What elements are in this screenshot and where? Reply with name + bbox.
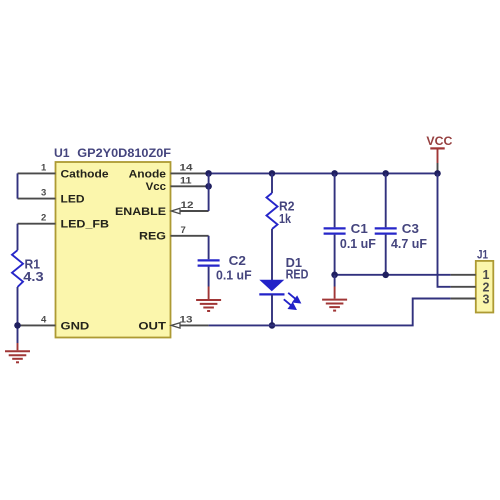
svg-text:1k: 1k bbox=[279, 212, 291, 226]
pin 13 OUT stub with output arrowhead bbox=[171, 323, 208, 328]
wire rail to C3 bbox=[385, 173, 387, 227]
pin 11 Vcc stub bbox=[171, 185, 209, 187]
net wire OUT to J1 pin3 bbox=[209, 299, 451, 326]
wire C1 bottom to GND rail bbox=[334, 235, 336, 275]
svg-text:GND: GND bbox=[61, 320, 90, 332]
svg-text:Cathode: Cathode bbox=[61, 168, 109, 180]
svg-text:0.1 uF: 0.1 uF bbox=[216, 269, 252, 283]
svg-text:2: 2 bbox=[41, 213, 46, 224]
wire R2 to D1 bbox=[271, 229, 273, 280]
svg-text:J1: J1 bbox=[477, 248, 488, 262]
svg-text:4: 4 bbox=[41, 314, 47, 325]
svg-text:12: 12 bbox=[181, 200, 194, 211]
junction C1 top bbox=[331, 170, 338, 177]
svg-text:3: 3 bbox=[41, 188, 46, 199]
svg-text:OUT: OUT bbox=[138, 320, 166, 332]
pin 4 GND stub bbox=[18, 324, 56, 326]
J1 pin 1 stub bbox=[451, 274, 476, 276]
resistor R2 zigzag bbox=[267, 193, 278, 229]
wire D1 to OUT line bbox=[271, 294, 273, 325]
svg-text:VCC: VCC bbox=[426, 134, 452, 148]
pin 2 LED_FB stub bbox=[18, 223, 56, 225]
svg-text:ENABLE: ENABLE bbox=[115, 206, 166, 218]
resistor R1 zigzag bbox=[12, 250, 23, 287]
svg-text:4.7 uF: 4.7 uF bbox=[391, 237, 427, 251]
junction R2 top bbox=[269, 170, 276, 177]
wire VCC down to J1 pin2 bbox=[438, 173, 451, 286]
svg-text:4.3: 4.3 bbox=[23, 270, 43, 284]
J1 pin 3 stub bbox=[451, 298, 476, 300]
junction C3 top bbox=[382, 170, 389, 177]
junction at R1/GND pin4 bbox=[14, 322, 21, 329]
pin 3 LED stub bbox=[18, 198, 56, 200]
junction C3 bottom bbox=[382, 272, 389, 279]
wire pin1 to pin3 U-loop bbox=[17, 173, 19, 198]
ground symbol below R1 bbox=[5, 343, 30, 362]
svg-text:LED: LED bbox=[61, 194, 85, 206]
wire vertical pin14/11 to ENABLE bbox=[208, 173, 210, 211]
capacitor C1 plates bbox=[324, 228, 346, 233]
junction pin14 node bbox=[205, 170, 212, 177]
J1 pin 2 stub bbox=[451, 286, 476, 288]
svg-text:REG: REG bbox=[139, 231, 166, 243]
VCC supply symbol bbox=[430, 148, 444, 173]
pin 14 Anode stub bbox=[171, 172, 209, 174]
svg-text:14: 14 bbox=[180, 162, 194, 173]
svg-text:RED: RED bbox=[286, 267, 309, 281]
wire pin2 down to R1 bbox=[17, 224, 19, 251]
svg-text:11: 11 bbox=[180, 175, 192, 186]
svg-text:3: 3 bbox=[483, 292, 490, 306]
pin 12 ENABLE stub with input arrowhead bbox=[171, 208, 208, 213]
svg-text:Vcc: Vcc bbox=[146, 181, 166, 193]
LED D1 triangle and cathode bar bbox=[259, 280, 284, 295]
svg-text:LED_FB: LED_FB bbox=[61, 219, 110, 231]
svg-text:Anode: Anode bbox=[129, 168, 166, 180]
svg-text:C2: C2 bbox=[229, 254, 246, 268]
pin 7 REG stub bbox=[171, 235, 209, 237]
wire rail to C1 bbox=[334, 173, 336, 227]
wire rail to R2 bbox=[271, 173, 273, 193]
junction pin11 node bbox=[205, 183, 212, 190]
svg-text:0.1 uF: 0.1 uF bbox=[340, 237, 376, 251]
svg-text:U1: U1 bbox=[54, 148, 70, 160]
svg-text:7: 7 bbox=[181, 225, 186, 236]
LED D1 emission arrows bbox=[284, 293, 300, 309]
junction D1/OUT bbox=[269, 322, 276, 329]
capacitor C3 plates bbox=[375, 228, 397, 233]
junction C1 bottom bbox=[331, 272, 338, 279]
capacitor C2 plates bbox=[198, 260, 220, 265]
svg-text:GP2Y0D810Z0F: GP2Y0D810Z0F bbox=[77, 148, 171, 160]
ground symbol below C2 bbox=[196, 300, 221, 311]
wire REG to C2 bbox=[208, 236, 210, 259]
wire C3 bottom to GND rail bbox=[385, 235, 387, 275]
junction VCC rail bbox=[434, 170, 441, 177]
svg-text:C1: C1 bbox=[351, 222, 368, 236]
svg-text:1: 1 bbox=[41, 162, 47, 173]
wire R1 bottom to GND junction bbox=[17, 287, 19, 343]
wire C2 bottom to ground bbox=[208, 267, 210, 287]
ground symbol below C1 bbox=[322, 300, 347, 311]
svg-text:C3: C3 bbox=[402, 222, 419, 236]
wire C1 gnd stub bbox=[334, 275, 336, 287]
net wire pin14 to VCC rail bbox=[209, 172, 438, 174]
pin 1 Cathode stub bbox=[18, 172, 56, 174]
connector J1 body bbox=[476, 261, 494, 313]
svg-text:13: 13 bbox=[180, 314, 193, 325]
GND rail caps to J1 pin1 bbox=[335, 274, 451, 276]
IC U1 GP2Y0D810Z0F body bbox=[56, 162, 171, 338]
